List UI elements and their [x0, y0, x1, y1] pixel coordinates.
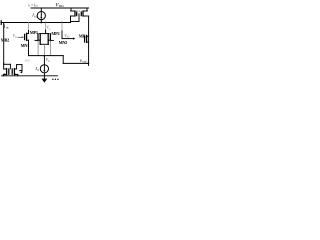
- svg-text:MB2: MB2: [1, 37, 9, 42]
- VDD rail: [31, 7, 89, 9]
- ground: [42, 76, 48, 83]
- bottom-left mirror wires: [4, 64, 23, 73]
- VSS rail: [2, 75, 58, 77]
- wire: left branch vertical: [3, 23, 5, 65]
- node input terminal tick: [0, 21, 2, 25]
- labels: [1, 2, 87, 71]
- svg-text:MP2: MP2: [51, 31, 59, 36]
- arrowhead to MB1 gate: [73, 37, 75, 39]
- current source I_b2: [40, 56, 48, 76]
- svg-text:MB1: MB1: [79, 33, 87, 38]
- gate bar MN pair: [40, 43, 48, 45]
- svg-text:DD: DD: [59, 4, 64, 8]
- transistor MB3: [3, 63, 9, 76]
- wire: right branch vertical: [88, 16, 90, 63]
- center gate line from input node: [45, 23, 47, 31]
- wire C output: [63, 62, 88, 64]
- svg-text:MP1: MP1: [30, 30, 38, 35]
- svg-text:2.1: 2.1: [76, 9, 80, 13]
- output terminal dot: [87, 63, 89, 65]
- svg-text:b1: b1: [34, 15, 38, 19]
- center line MN gates down: [44, 44, 46, 55]
- wire: input node horizontal: [1, 22, 70, 24]
- node junction dot under Ib1: [40, 22, 42, 24]
- current source I_b1: [37, 8, 45, 23]
- wire A lower node: [29, 55, 64, 57]
- transistor MP2: [48, 34, 53, 56]
- svg-text:MN2: MN2: [59, 40, 68, 45]
- transistor MB4: [12, 69, 18, 76]
- wire: vout gate drop from input node: [61, 23, 63, 32]
- transistor MP1: [35, 34, 40, 56]
- svg-text:MB3: MB3: [25, 60, 31, 63]
- transistor pair top-right (mirror): [71, 8, 89, 23]
- ellipsis dots: [52, 79, 53, 80]
- transistor MN1 gate: [38, 39, 40, 41]
- transistor MB2: [25, 23, 29, 56]
- transistor MB1: [85, 36, 89, 43]
- transistor MN2 gate: [48, 39, 50, 41]
- Vb arrow to MB2 gate: [18, 36, 24, 38]
- gate bar MP pair: [40, 33, 49, 35]
- svg-text:in: in: [6, 26, 9, 30]
- svg-text:out: out: [82, 60, 86, 64]
- svg-text:ib = IB1: ib = IB1: [28, 4, 38, 8]
- svg-text:MN1: MN1: [21, 43, 30, 48]
